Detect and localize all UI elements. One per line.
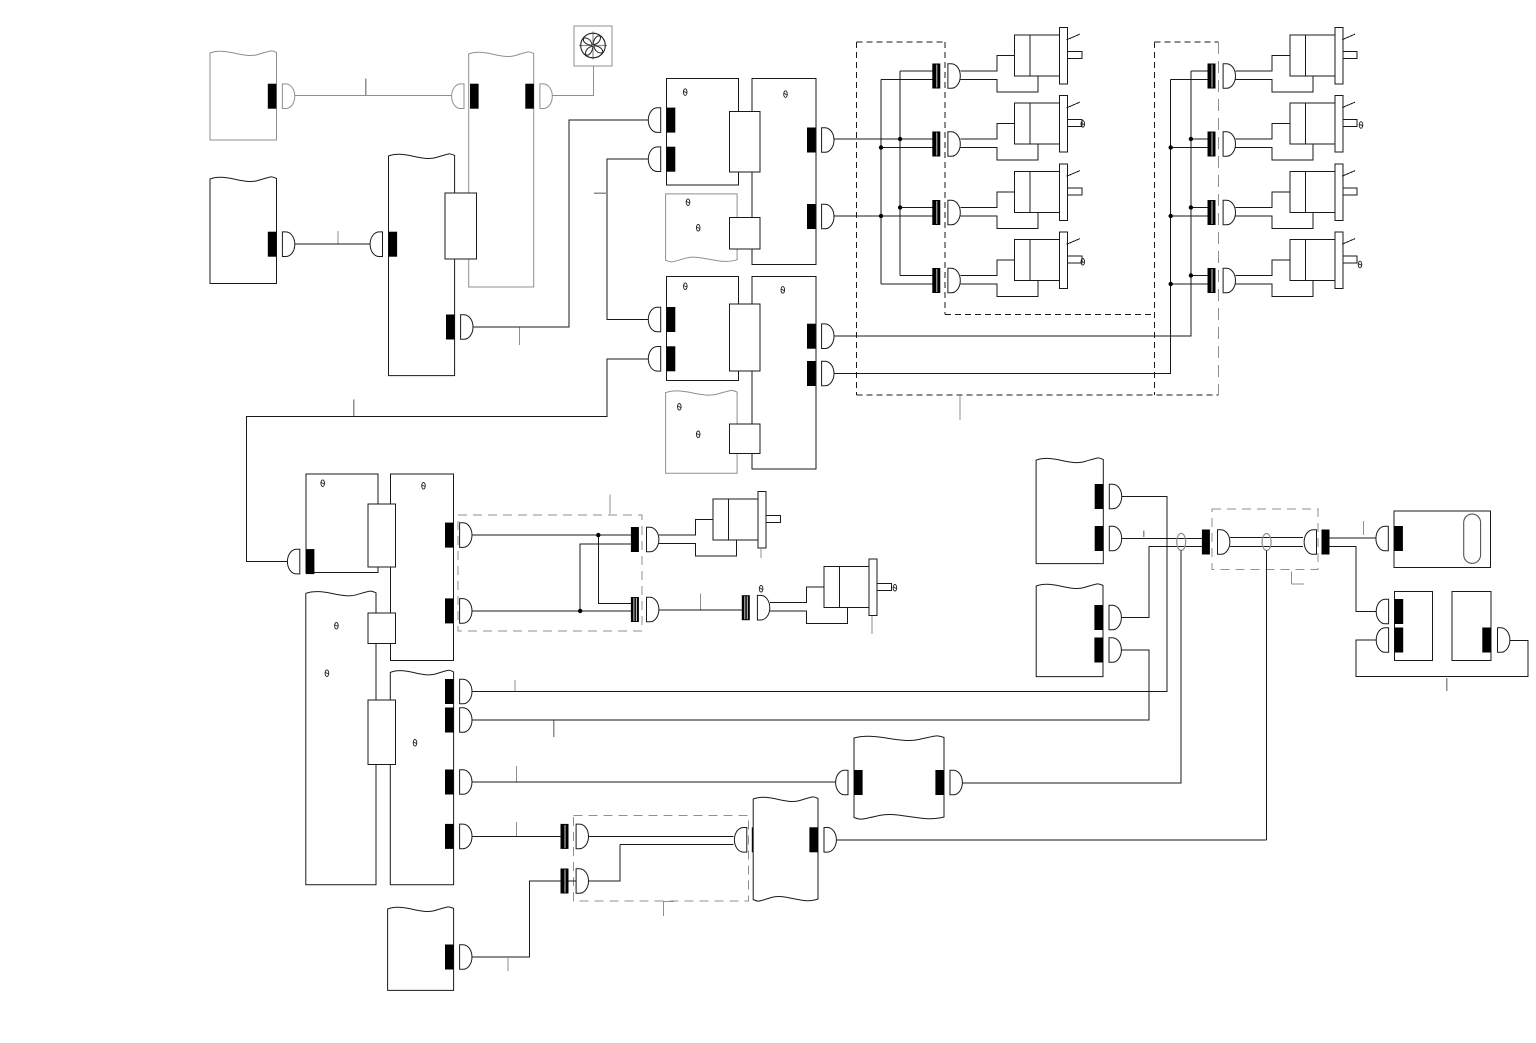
label above pair3 — [759, 586, 763, 593]
connector V1 right — [809, 827, 818, 852]
bank2 row wires — [1191, 138, 1208, 140]
device box S1 — [1394, 511, 1490, 567]
wire Q2 lower to pair2 — [472, 610, 631, 612]
fan box — [574, 26, 612, 66]
device box Q2 — [390, 474, 453, 660]
device box Q4 (torn top) — [390, 670, 453, 885]
wire W pair2 out — [589, 880, 620, 882]
bank1 row2 lower wire — [881, 147, 932, 149]
junction dots bank1 — [898, 137, 902, 141]
connector on B3 right edge — [446, 315, 455, 340]
junction block P6-P5 — [730, 424, 760, 453]
device box R1 (torn top) — [1036, 458, 1103, 564]
connector on B1 right edge — [268, 84, 277, 109]
connector pair ext left — [1202, 530, 1210, 555]
wire P4 lower to Q1 — [247, 359, 649, 562]
device box P5 — [752, 277, 816, 470]
connector R1 right upper — [1095, 484, 1104, 509]
wire branch pair1 lower — [580, 544, 631, 611]
wire branch down from dot — [598, 535, 631, 603]
device box B1 (torn top) — [210, 51, 277, 140]
wire tick T13 — [1362, 521, 1364, 535]
flange tick T8 — [760, 549, 762, 558]
wire B2 to fan — [552, 66, 593, 96]
wire tick T16 — [516, 822, 518, 836]
wire B1b to B3 — [295, 243, 372, 245]
label Q4 — [413, 740, 417, 747]
bank2 connector pair row3 — [1208, 200, 1216, 225]
connector P2 right upper — [807, 128, 816, 153]
junction block Q1-Q2 — [368, 504, 395, 567]
device box V1 (torn top+bottom) — [753, 797, 818, 901]
bank1 row3 upper wire — [900, 207, 932, 209]
bank1 lower bus — [880, 80, 882, 285]
device box Q5 (torn top) — [388, 907, 454, 991]
twist oval O2 — [1262, 534, 1271, 551]
connector S2 left upper — [1395, 599, 1404, 624]
bank2 lower bus top — [1170, 80, 1172, 148]
bank2 connector pair row2 — [1208, 132, 1216, 157]
wire ext to S1 — [1330, 537, 1376, 539]
label bank1 motor4 — [1081, 259, 1085, 266]
wire Q5 to W pair2 — [472, 881, 561, 957]
bank2 connector pair row1 — [1208, 64, 1216, 89]
device box Q1 — [306, 474, 378, 572]
wire B3 to P1 upper — [473, 120, 648, 327]
connector Q4 c4 — [445, 824, 454, 849]
label Q1 — [321, 480, 325, 487]
wire tick T11 — [1143, 531, 1145, 538]
label P2 — [784, 91, 788, 98]
wire ext to S2 c1 — [1330, 547, 1377, 612]
connector Q4 c2 — [445, 708, 454, 733]
device box R2 (torn top) — [1036, 584, 1103, 677]
device box P6 (torn top) — [666, 390, 738, 473]
wire tick T22 — [514, 680, 516, 691]
wire pair2 to pair3 — [659, 609, 742, 611]
capsule in S1 — [1464, 514, 1481, 563]
connector R2 right lower — [1094, 638, 1103, 663]
connector pair mid row1 — [631, 527, 639, 552]
wire V1 to O2 drop — [836, 839, 1266, 841]
connector pair ext right — [1322, 530, 1330, 555]
connector Q2 right lower — [445, 598, 454, 623]
connector on B2 left edge — [470, 84, 479, 109]
junction dots bank2 — [1189, 137, 1193, 141]
wire label tick T7 — [700, 594, 702, 610]
motor M10 — [770, 587, 848, 624]
connector pair W row1 — [561, 824, 569, 849]
junction block P4-P5 — [730, 304, 760, 371]
label P6b — [696, 431, 700, 438]
connector P2 right lower — [807, 204, 816, 229]
junction dot — [578, 609, 582, 613]
bank2 motor M8 — [1236, 260, 1314, 297]
junction dot — [596, 533, 600, 537]
device box P3 (torn bottom) — [666, 194, 738, 262]
harness dashed box W — [573, 815, 748, 901]
bank2 upper bus top — [1190, 71, 1192, 139]
connector Q1 left — [306, 549, 315, 574]
bank2 motor M6 — [1236, 124, 1314, 161]
junction block P1-P2 — [730, 111, 760, 172]
wire tick T17 — [507, 958, 509, 971]
label bank2 motor2 — [1359, 122, 1363, 129]
bank2 connector pair row4 — [1208, 268, 1216, 293]
connector Q4 c1 — [445, 679, 454, 704]
connector T left — [854, 770, 863, 795]
wire feeder from P5 to bank2 bus A — [834, 139, 1191, 336]
connector P5 right lower — [807, 361, 816, 386]
wire label tick T2 — [337, 231, 339, 243]
label P3a — [686, 199, 690, 206]
label motor M10 — [893, 585, 897, 592]
label bank1 motor2 — [1081, 121, 1085, 128]
bank2 motor M7 — [1236, 192, 1314, 229]
harness label tick T10 — [959, 396, 961, 420]
harness dashed box bank1 — [856, 42, 858, 395]
bank1 motor M2 — [960, 124, 1038, 161]
connector pair W row2 — [561, 869, 569, 894]
junction block Q3-Q4 — [368, 700, 395, 764]
wire Q2 upper to pair1 — [472, 534, 631, 536]
twist oval O1 — [1177, 533, 1186, 550]
connector Q2 right upper — [445, 523, 454, 548]
label Q3b — [325, 670, 329, 677]
wire feeder A from P2 to bank1 row2 — [834, 138, 932, 140]
label P3b — [696, 225, 700, 232]
junction block P3-P2 — [730, 218, 760, 250]
wire Q4 c4 to W pair1 — [472, 835, 561, 837]
device box B3 (torn top) — [389, 154, 455, 376]
connector T right — [935, 770, 944, 795]
wire label tick T4 — [353, 400, 355, 417]
connector Q5 right — [445, 945, 454, 970]
W harness leader T18 — [663, 902, 665, 917]
label P4 — [684, 283, 688, 290]
bus tick T14 — [1446, 678, 1448, 691]
connector Q4 c3 — [445, 770, 454, 795]
wire feeder from P5 to bank2 bus B — [834, 148, 1171, 374]
wire Q4 c3 to T-box — [472, 781, 836, 783]
wire P1 lower to P4 upper — [607, 159, 648, 319]
fan icon — [579, 32, 607, 60]
wire R1 upper to Q4 c1 — [472, 497, 1167, 692]
bank1 motor M4 — [960, 260, 1038, 297]
connector R1 right lower — [1095, 526, 1104, 551]
label P6a — [678, 404, 682, 411]
bank1 connector pair row2 — [932, 132, 940, 157]
connector P1 left lower — [667, 147, 676, 172]
wire R2 lower to Q4 c2 — [472, 650, 1149, 720]
bank1 upper bus — [899, 71, 901, 276]
wire R2 upper to ext pair lower pin — [1121, 547, 1202, 618]
wire S2 lower to S3 via bus — [1356, 640, 1528, 677]
connector S1 left — [1394, 526, 1403, 551]
wire B1 to B2 — [295, 95, 452, 97]
label Q3a — [335, 622, 339, 629]
wire label tick T5 — [594, 192, 607, 194]
label P1 — [683, 89, 687, 96]
connector R2 right upper — [1094, 605, 1103, 630]
motor M9 — [659, 520, 737, 557]
gray dashed harness edge — [1218, 42, 1220, 395]
connector on B3 left edge — [389, 232, 398, 257]
bank1 motor M1 — [960, 56, 1038, 93]
bank1 connector pair row4 — [932, 268, 940, 293]
connector pair mid row2 — [631, 597, 639, 622]
connector S2 left lower — [1395, 628, 1404, 653]
wire label tick T3 — [519, 328, 521, 346]
W wires to V1 — [589, 835, 734, 837]
connector pair W right on V1 edge — [752, 827, 760, 852]
device box P2 — [752, 79, 816, 265]
bank1 row1 wires — [900, 70, 932, 72]
harness dashed box mid — [458, 515, 642, 631]
connector P4 left upper — [667, 307, 676, 332]
wire R1 lower to ext pair — [1122, 538, 1202, 540]
harness dashed box bank2 — [1154, 42, 1156, 395]
flange tick T9 — [871, 616, 873, 634]
wire feeder B from P2 to bank1 row3 — [834, 215, 932, 217]
junction block Q3-Q2 — [368, 613, 395, 644]
bank1 connector pair row3 — [932, 200, 940, 225]
device box B1b (torn top) — [210, 177, 277, 284]
bank1 row4 wires — [900, 275, 932, 277]
bank1 connector pair row1 — [932, 64, 940, 89]
junction block B2-B3 — [445, 193, 476, 259]
wire tick T15 — [516, 766, 518, 782]
connector P5 right upper — [807, 324, 816, 349]
ext harness dashed box — [1212, 509, 1318, 569]
device box B2 (torn top) — [469, 52, 534, 287]
device box Q3 (torn top) — [306, 591, 376, 885]
device box P4 — [667, 277, 739, 381]
connector P1 left upper — [667, 108, 676, 133]
label P5 — [781, 287, 785, 294]
wire label tick T1 — [365, 79, 367, 96]
connector P4 left lower — [667, 346, 676, 371]
drop wire from O1 to T-box — [962, 551, 1181, 784]
connector S3 right — [1482, 628, 1491, 653]
connector on B2 right edge — [525, 84, 534, 109]
device box S2 — [1394, 591, 1432, 660]
drop wire from O2 — [1266, 551, 1268, 840]
label bank2 motor4 — [1358, 261, 1362, 268]
device box T (torn top+bottom) — [854, 736, 944, 819]
connector on B1b right edge — [268, 232, 277, 257]
connector pair mid row3 — [742, 595, 750, 620]
ext wires — [1230, 537, 1303, 539]
bank1 motor M3 — [960, 192, 1038, 229]
label Q2 — [422, 483, 426, 490]
device box P1 — [667, 79, 739, 185]
harness label tick T6 — [609, 495, 611, 515]
device box S3 — [1452, 591, 1491, 660]
wire tick T23 — [553, 721, 555, 738]
ext harness leader T12 — [1291, 572, 1293, 585]
bank2 motor M5 — [1236, 56, 1314, 93]
